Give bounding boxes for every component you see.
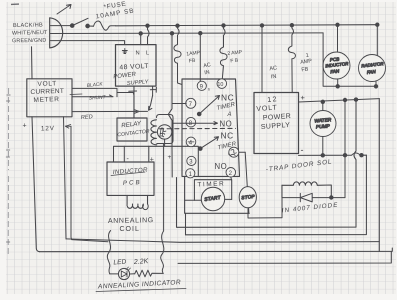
svg-text:2.2K: 2.2K	[133, 258, 149, 266]
svg-text:12V: 12V	[41, 125, 55, 132]
svg-text:NO: NO	[215, 162, 228, 171]
bus B3	[66, 239, 379, 242]
wire stop bottom hook	[248, 185, 282, 218]
terminal minus tick of PS1	[129, 86, 137, 95]
label 2 AMP FB	[227, 49, 243, 64]
terminal 4	[186, 137, 196, 147]
svg-text:WHITE/NEUT: WHITE/NEUT	[12, 30, 48, 37]
48V power supply PS1	[116, 45, 157, 87]
label RELAY CONTACTOR	[117, 120, 150, 138]
wire gnd stub to meter	[31, 47, 34, 79]
wire relay aux bottom tick	[164, 139, 166, 146]
wire timer bottom rectangle	[185, 176, 250, 213]
terminal 10	[217, 79, 227, 89]
svg-text:VOLT: VOLT	[256, 104, 278, 112]
svg-text:FB: FB	[301, 66, 309, 73]
terminal 9	[197, 81, 206, 90]
label NO row bottom	[215, 162, 228, 171]
wire N drop to PS1	[139, 32, 142, 45]
terminal 1	[186, 169, 195, 178]
wire inductor feed bus	[114, 146, 199, 175]
label TIMER	[197, 181, 225, 189]
switch S1	[70, 18, 93, 28]
wire rail drop right A	[354, 100, 356, 228]
svg-text:NC: NC	[221, 131, 234, 141]
svg-text:AC: AC	[269, 65, 278, 72]
svg-text:10: 10	[217, 82, 223, 88]
wire tick inductor plus	[148, 146, 150, 162]
start button SW2	[185, 187, 232, 210]
label 1N 4007 DIODE	[282, 202, 339, 215]
wire -12 line	[299, 153, 367, 157]
label 48 VOLT POWER SUPPLY	[113, 63, 150, 87]
label NC timer C	[217, 131, 237, 158]
svg-text:NO: NO	[220, 119, 233, 128]
svg-text:RED: RED	[81, 114, 93, 121]
label NO row 8	[220, 119, 233, 128]
trap door solenoid L2	[282, 182, 331, 198]
svg-text:FAN: FAN	[330, 68, 340, 74]
label GREEN/GND	[12, 38, 47, 45]
label TRAP DOOR SOL	[265, 158, 332, 173]
resistor R1 2.2K	[135, 270, 164, 277]
bus B5	[178, 251, 391, 263]
wire meter bottom down	[64, 117, 67, 239]
pin L	[146, 51, 150, 57]
label INDUCTOR PCB	[111, 167, 148, 187]
svg-text:IN: IN	[204, 70, 210, 77]
terminal 8	[186, 117, 196, 127]
wire N drop to term 9	[199, 32, 202, 82]
svg-text:N: N	[136, 51, 140, 57]
wire rail drop right B	[378, 99, 380, 252]
wire term2 to timer	[230, 177, 233, 180]
label RED	[81, 114, 93, 121]
label AC IN right	[269, 65, 278, 80]
LED D2 indicator	[110, 267, 135, 280]
svg-text:+: +	[301, 93, 306, 102]
svg-text:+: +	[23, 122, 27, 129]
svg-text:LED: LED	[113, 259, 127, 267]
contact arm timer A	[197, 88, 219, 116]
label FUSE 10AMP SB	[95, 1, 135, 21]
fuse F3 2AMP on L drop	[220, 24, 227, 79]
terminal 3	[187, 156, 196, 165]
label 1 AMP FB right	[300, 53, 313, 74]
inductor PCB board U2	[107, 162, 154, 195]
wire aux drop behind stop	[245, 152, 249, 213]
wire hot from plug to switch	[51, 25, 72, 27]
wire line GND	[51, 41, 125, 45]
label ANNEALING INDICATOR	[96, 279, 186, 291]
svg-text:FAN: FAN	[367, 69, 377, 75]
svg-text:SHUNT: SHUNT	[89, 95, 107, 102]
wire L drop to PS2	[260, 24, 263, 93]
wire housing drop right curvy	[161, 144, 164, 274]
terminal 7	[186, 98, 196, 108]
label VOLT CURRENT METER	[30, 80, 64, 104]
annealing coil L1	[127, 195, 148, 209]
label SHUNT	[70, 94, 107, 101]
label minus PS2	[301, 145, 304, 155]
svg-text:WATER: WATER	[314, 117, 332, 124]
water pump motor M2	[310, 102, 336, 155]
wire PS1 minus to relay	[133, 96, 135, 119]
label NC timer A	[216, 93, 236, 119]
svg-text:GREEN/GND: GREEN/GND	[12, 38, 47, 45]
label ANNEALING COIL	[108, 217, 154, 233]
svg-text:PUMP: PUMP	[316, 123, 331, 130]
svg-text:COIL: COIL	[120, 226, 140, 233]
label BLACK	[87, 81, 104, 89]
relay housing	[157, 115, 174, 144]
svg-text:VOLT: VOLT	[37, 80, 57, 88]
svg-text:A: A	[227, 112, 232, 118]
relay aux circle	[157, 125, 171, 139]
timer T1 box	[194, 180, 231, 201]
wire L drop to PS1 with hop	[146, 24, 149, 45]
terminal block TB1 outline	[182, 79, 240, 176]
wire line L (hot bus)	[116, 25, 378, 26]
dashed divider	[160, 127, 236, 129]
svg-text:F B: F B	[230, 58, 239, 65]
wire from aux to right	[239, 151, 245, 153]
contact arm timer C	[199, 137, 219, 151]
svg-text:BLACK/HB: BLACK/HB	[13, 22, 43, 29]
wire 12v arrow down column	[71, 126, 108, 241]
terminal 5-6 aux circle	[229, 147, 239, 157]
terminal ground pin	[122, 49, 127, 54]
wire fused L drop to PS2 with hop	[288, 24, 295, 93]
bus B1	[177, 178, 357, 228]
wire +12 rail	[299, 98, 380, 104]
wire PS1 plus to relay arrow	[149, 96, 153, 111]
terminal 2	[226, 168, 236, 178]
label WHITE/NEUT	[12, 30, 48, 37]
pin N	[136, 51, 140, 57]
svg-text:NC: NC	[221, 93, 234, 103]
wire meter to shunt top	[72, 88, 134, 96]
svg-text:+: +	[168, 154, 172, 161]
wire RED meter to PS1 plus	[72, 110, 148, 113]
label 12 VOLT POWER SUPPLY	[256, 96, 291, 131]
svg-text:ANNEALING: ANNEALING	[108, 217, 154, 225]
fuse F2 1AMP on L drop	[174, 24, 182, 85]
wire line N (neutral bus)	[51, 32, 324, 35]
svg-text:-: -	[301, 145, 304, 155]
wire trap to -12	[343, 98, 346, 197]
bus B4	[40, 248, 393, 252]
wire tick inductor minus	[123, 146, 125, 162]
label minus	[127, 156, 130, 163]
fuse F1 10A	[94, 21, 116, 30]
label plus	[150, 154, 172, 164]
label 12V with plus	[23, 122, 72, 132]
wire B2 left drop	[185, 213, 187, 235]
wire N feed to fans	[323, 33, 378, 88]
volt current meter M1	[27, 79, 72, 117]
svg-text:IN: IN	[271, 74, 277, 81]
wire meter minus down left column	[32, 117, 40, 252]
page edge smudge left	[6, 4, 19, 256]
label AC IN left	[203, 62, 212, 76]
svg-text:PCB: PCB	[123, 179, 142, 187]
svg-text:b: b	[208, 88, 210, 92]
wire left curvy drop to LED	[107, 231, 110, 274]
AC plug P1	[50, 5, 71, 48]
stop button SW3	[239, 187, 256, 208]
node N drop mid vertical with jog	[168, 32, 173, 177]
12V supply PS2 box	[254, 93, 299, 154]
relay coil K1 loops	[151, 120, 157, 145]
label LED 2.2K	[113, 258, 149, 266]
terminal plus tick of PS1	[150, 86, 156, 95]
label 1AMP FB left	[186, 50, 201, 65]
label BLACK/HB	[13, 22, 43, 29]
wire into term 7	[172, 103, 186, 105]
pcb inductor fan M3	[323, 23, 350, 86]
label plus PS2	[301, 93, 306, 102]
diode D1 1N4007	[282, 185, 345, 202]
svg-text:12: 12	[267, 96, 278, 104]
svg-text:METER: METER	[33, 96, 59, 104]
radiator fan M4	[359, 23, 386, 86]
svg-text:CURRENT: CURRENT	[30, 88, 64, 96]
wire NO row 8	[173, 122, 218, 125]
relay contactor K1 box	[117, 118, 147, 141]
bus B2	[186, 155, 367, 235]
